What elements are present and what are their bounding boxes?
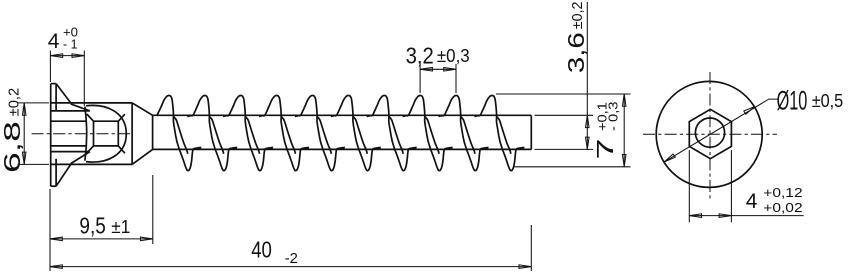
- svg-text:±1: ±1: [111, 217, 130, 237]
- thread turn 8: crest, flank, root: [403, 96, 453, 171]
- thread back flank 8: [425, 116, 439, 153]
- dim 7 line: [623, 94, 625, 167]
- svg-text:- 1: - 1: [63, 36, 78, 51]
- dim 4 (socket) extension line left: [688, 150, 690, 222]
- arrow dim6,8 up: [22, 103, 26, 115]
- dim 3,2 line: [420, 68, 456, 70]
- thread back flank 5: [317, 116, 331, 153]
- thread back flank 2: [209, 116, 223, 153]
- arrow dim40 left: [50, 265, 62, 269]
- thread turn 1: crest, flank, root: [157, 96, 201, 171]
- svg-text:40: 40: [251, 237, 272, 263]
- dim 40 line: [50, 266, 531, 268]
- arrow dim7 up: [622, 94, 626, 106]
- svg-text:7: 7: [592, 139, 618, 160]
- svg-text:4: 4: [746, 190, 758, 213]
- svg-text:9,5: 9,5: [79, 212, 105, 238]
- head bottom edge: [51, 163, 132, 165]
- shank start edge: [152, 115, 154, 149]
- arrow dim3,6 down: [586, 137, 590, 149]
- flange top edge: [51, 83, 56, 85]
- dim 6,8 line: [23, 103, 25, 164]
- socket entry chamfer top: [71, 104, 90, 111]
- dim 3,6 line (extended up to its label): [586, 2, 588, 149]
- svg-text:Ø10: Ø10: [777, 85, 808, 115]
- dim 9,5 extension line right: [152, 175, 154, 244]
- socket pocket right edge: [117, 121, 119, 146]
- arrow dim9,5 left: [50, 237, 62, 241]
- pocket corner chamfer UR: [118, 114, 125, 121]
- arrow dim4 socket left: [689, 214, 701, 218]
- svg-text:+0,02: +0,02: [763, 200, 802, 215]
- svg-text:3,6: 3,6: [563, 32, 589, 73]
- thread turn 7: crest, flank, root: [367, 96, 417, 171]
- centerline of side view (head region only): [32, 133, 133, 135]
- head top edge: [51, 102, 132, 104]
- dim 4 (socket) line with leader to label: [689, 215, 803, 217]
- thread back flank 1: [173, 116, 187, 153]
- flange right face lower: [55, 159, 57, 186]
- head cone bottom: [132, 149, 153, 164]
- dim 3,2 extension lines: [419, 64, 421, 93]
- thread back flank 4: [281, 116, 295, 153]
- socket pocket bottom edge: [94, 145, 119, 147]
- thread turn 9: crest, flank, root: [439, 96, 489, 171]
- pocket corner chamfer LL: [87, 146, 94, 153]
- hex socket bottom flat: [52, 151, 90, 153]
- thread back flank 7: [389, 116, 403, 153]
- end view vertical centerline: [709, 72, 711, 200]
- dim 4 +0/-1 : extension lines: [49, 51, 51, 82]
- thread turn 4: crest, flank, root: [259, 96, 309, 171]
- dim 7 extension lines: [496, 93, 631, 95]
- svg-text:±0,2: ±0,2: [569, 2, 586, 30]
- head dome outline: [86, 105, 126, 162]
- shank top line: [153, 114, 532, 116]
- thread turn 5: crest, flank, root: [295, 96, 345, 171]
- arrow dim3,6 up: [586, 115, 590, 127]
- thread back flank 6: [353, 116, 367, 153]
- socket bore circle: [695, 118, 724, 147]
- hex socket hexagon: [689, 109, 731, 158]
- svg-text:6,8: 6,8: [0, 121, 25, 173]
- arrows: [22, 54, 626, 269]
- left extension line (shared 9,5 / 40): [49, 189, 51, 271]
- svg-text:±0,3: ±0,3: [437, 46, 470, 66]
- svg-text:-2: -2: [285, 250, 298, 267]
- thread back flank 3: [245, 116, 259, 153]
- socket bottom face (bowed): [85, 107, 87, 161]
- arrow dim4 right: [72, 54, 84, 58]
- end view horizontal centerline: [643, 133, 777, 135]
- flange bottom chamfer: [56, 164, 71, 186]
- thread turn 6: crest, flank, root: [331, 96, 381, 171]
- thread back flank 9: [461, 116, 475, 153]
- arrow dim3,2 right: [444, 68, 456, 72]
- dim 40 extension line right: [530, 225, 532, 271]
- flange right face upper: [55, 84, 57, 111]
- thread back flank 10: [497, 116, 511, 153]
- socket entry chamfer bottom: [71, 152, 90, 164]
- head outer circle: [656, 81, 762, 187]
- dim 4 line: [50, 55, 84, 57]
- arrow dim9,5 right: [141, 237, 153, 241]
- thread turn 2: crest, flank, root: [187, 96, 237, 171]
- flange bottom edge: [51, 185, 56, 187]
- arrow leader Ø10 lower: [664, 154, 675, 162]
- screw tip edge: [530, 115, 532, 149]
- arrow dim7 down: [622, 155, 626, 167]
- flange top chamfer: [56, 84, 71, 103]
- thread turn 10: crest, flank, root: [474, 96, 524, 171]
- shank bottom line: [153, 148, 532, 150]
- svg-text:+0,12: +0,12: [763, 185, 802, 200]
- head cone top: [132, 103, 153, 115]
- svg-text:±0,5: ±0,5: [812, 91, 844, 111]
- arrow dim4 socket right: [719, 214, 731, 218]
- pocket corner chamfer UL: [87, 114, 94, 121]
- arrow dim4 left: [50, 54, 62, 58]
- pocket corner chamfer LR: [118, 146, 125, 153]
- hex socket top flat: [52, 110, 90, 112]
- arrow dim40 right: [519, 265, 531, 269]
- socket pocket top edge: [94, 120, 119, 122]
- socket pocket left edge: [93, 121, 95, 146]
- svg-text:- 0,3: - 0,3: [606, 102, 621, 132]
- dim 3,6 extension lines: [535, 114, 594, 116]
- arrow dim3,2 left: [420, 68, 432, 72]
- thread turn 3: crest, flank, root: [223, 96, 273, 171]
- hex socket upper edge line: [52, 120, 87, 122]
- dim 9,5 line: [50, 238, 153, 240]
- dim 6,8 extension lines: [18, 102, 50, 104]
- flange left face: [50, 84, 52, 187]
- dim 4 (socket) extension line right: [730, 150, 732, 222]
- svg-text:±0,2: ±0,2: [6, 88, 23, 117]
- head right face: [131, 103, 133, 164]
- arrow dim6,8 down: [22, 152, 26, 164]
- hex socket lower edge line: [52, 145, 87, 147]
- leader line for Ø10: [664, 99, 778, 162]
- arrow leader Ø10 upper: [744, 107, 755, 115]
- svg-text:3,2: 3,2: [406, 43, 434, 69]
- svg-text:4: 4: [48, 30, 60, 53]
